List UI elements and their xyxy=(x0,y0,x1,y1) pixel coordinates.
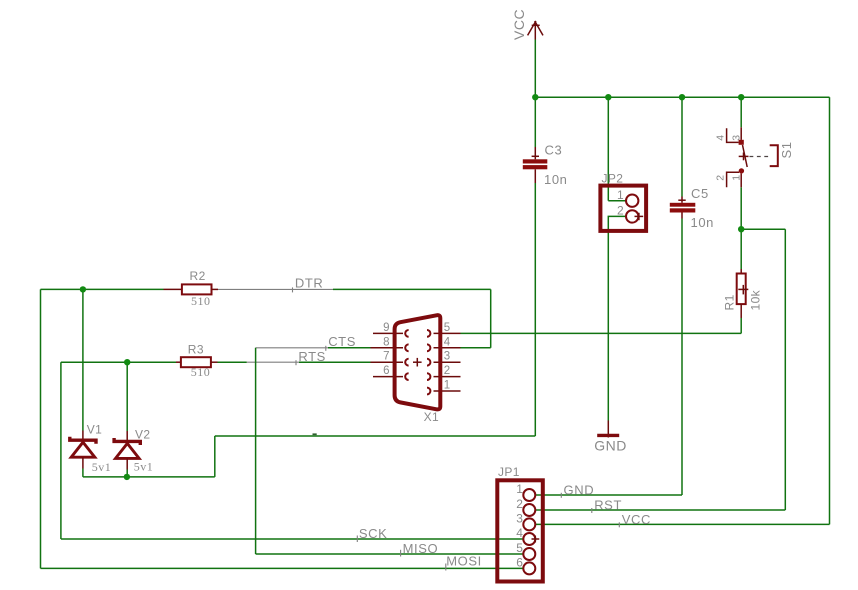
net label MOSI xyxy=(446,554,482,571)
resistor R3 xyxy=(176,342,218,378)
wire RTS to X1 pin7 xyxy=(299,361,371,363)
svg-text:2: 2 xyxy=(444,365,450,377)
svg-text:1: 1 xyxy=(516,482,523,496)
connector X1 DB9 xyxy=(371,315,461,424)
svg-text:RTS: RTS xyxy=(298,349,326,364)
wire X1 pin5 row xyxy=(461,332,742,334)
svg-text:10n: 10n xyxy=(544,172,568,187)
wire C3 top xyxy=(534,97,536,147)
wire node to V1 xyxy=(82,289,84,430)
wire C3 bottom to GND run xyxy=(534,183,536,436)
svg-text:MOSI: MOSI xyxy=(446,554,482,569)
wire RTS drop xyxy=(60,362,62,539)
junction VCC-C5 xyxy=(679,94,685,100)
svg-text:VCC: VCC xyxy=(511,9,527,40)
wire RTS gray segment xyxy=(247,361,299,363)
svg-text:RST: RST xyxy=(594,498,622,513)
wire S1 bottom to node xyxy=(740,187,742,229)
svg-text:5v1: 5v1 xyxy=(134,459,154,473)
net label MISO xyxy=(401,541,439,557)
pin header JP1 xyxy=(497,465,543,582)
svg-text:6: 6 xyxy=(383,365,389,377)
svg-text:3: 3 xyxy=(444,351,450,363)
svg-text:X1: X1 xyxy=(424,410,439,424)
wire V1 bottom xyxy=(82,469,84,477)
net label RTS xyxy=(296,349,326,365)
svg-text:5: 5 xyxy=(444,322,450,334)
svg-text:2: 2 xyxy=(714,175,726,181)
svg-text:7: 7 xyxy=(383,351,389,363)
wire far left drop xyxy=(40,289,42,568)
svg-text:6: 6 xyxy=(516,555,523,569)
net label DTR xyxy=(293,275,324,292)
wire CTS gray segment xyxy=(256,347,328,349)
svg-text:VCC: VCC xyxy=(622,512,651,527)
net label SCK xyxy=(357,526,387,542)
svg-text:10n: 10n xyxy=(691,215,715,230)
svg-text:V2: V2 xyxy=(135,428,150,442)
junction S1-R1-RST xyxy=(738,226,744,232)
svg-text:1: 1 xyxy=(730,175,742,181)
ground symbol GND xyxy=(594,421,627,454)
svg-text:JP2: JP2 xyxy=(602,172,624,186)
wire GND vertical left xyxy=(214,436,216,477)
wire DTR left xyxy=(41,288,164,290)
supply VCC symbol xyxy=(511,9,543,40)
wire JP2 pin1 elbow xyxy=(608,200,626,202)
svg-text:R2: R2 xyxy=(190,269,206,283)
zener diode V1 xyxy=(70,422,112,474)
capacitor C3 xyxy=(523,142,568,187)
wire SCK row to JP1 pin4 xyxy=(61,538,524,540)
resistor R1 xyxy=(723,269,763,318)
svg-text:V1: V1 xyxy=(87,422,102,436)
wire JP2 drop from VCC xyxy=(607,97,609,201)
svg-text:C3: C3 xyxy=(545,142,563,157)
svg-text:5: 5 xyxy=(516,541,523,555)
wire RST vertical xyxy=(784,229,786,510)
wire VCC row to JP1 pin3 xyxy=(535,523,830,525)
wire S1 top xyxy=(740,97,742,127)
svg-text:SCK: SCK xyxy=(359,526,388,541)
net label VCC xyxy=(619,512,651,527)
junction DTR-V1 xyxy=(80,286,86,292)
svg-text:5v1: 5v1 xyxy=(92,460,112,474)
wire node to RST drop xyxy=(741,228,785,230)
svg-text:1: 1 xyxy=(617,188,624,202)
svg-text:JP1: JP1 xyxy=(498,465,520,479)
svg-text:3: 3 xyxy=(516,512,523,526)
wire MOSI row to JP1 pin6 xyxy=(41,567,524,569)
wire R1 top xyxy=(740,229,742,269)
junction GND-V2 xyxy=(124,474,130,480)
net label GND xyxy=(561,483,594,498)
svg-text:510: 510 xyxy=(191,365,211,379)
svg-text:4: 4 xyxy=(444,336,451,348)
wire C5 bottom to JP1 xyxy=(681,219,683,496)
wire RST row to JP1 pin2 xyxy=(535,509,786,511)
resistor R2 xyxy=(164,269,219,308)
svg-text:510: 510 xyxy=(191,294,211,308)
wire node to V2 xyxy=(126,362,128,431)
wire DTR right xyxy=(333,288,491,290)
svg-text:C5: C5 xyxy=(691,186,709,201)
capacitor C5 xyxy=(670,186,714,230)
wire VCC stem xyxy=(534,40,536,98)
wire VCC bus top xyxy=(535,96,829,98)
svg-text:CTS: CTS xyxy=(328,334,356,349)
junction VCC-JP2 xyxy=(605,94,611,100)
svg-text:R1: R1 xyxy=(723,294,737,310)
wire V2 bottom xyxy=(126,470,128,477)
wire RTS left xyxy=(61,361,176,363)
svg-text:S1: S1 xyxy=(779,141,794,158)
svg-text:1: 1 xyxy=(444,380,450,392)
wire CTS drop xyxy=(255,348,257,554)
wire DTR gray segment xyxy=(218,288,333,290)
junction VCC-S1 xyxy=(738,94,744,100)
svg-text:2: 2 xyxy=(516,497,523,511)
wire GND horizontal run xyxy=(215,435,536,437)
wire R1 bottom xyxy=(740,318,742,333)
svg-text:9: 9 xyxy=(383,322,389,334)
wire diode bottom bus xyxy=(83,476,215,478)
wire JP2 pin2 elbow xyxy=(608,216,625,420)
switch S1 xyxy=(714,127,794,187)
svg-text:10k: 10k xyxy=(749,289,763,310)
jumper JP2 xyxy=(600,172,646,231)
wire CTS to X1 pin8 xyxy=(328,347,371,349)
wire GND row to JP1 pin1 xyxy=(535,494,682,496)
svg-text:3: 3 xyxy=(730,135,742,141)
junction VCC-C3 xyxy=(532,94,538,100)
wire stub mark on GND run xyxy=(313,433,317,435)
svg-text:2: 2 xyxy=(617,204,624,218)
svg-text:4: 4 xyxy=(714,135,726,141)
wire DTR down xyxy=(490,289,492,347)
svg-text:DTR: DTR xyxy=(295,275,324,290)
svg-text:R3: R3 xyxy=(188,342,204,356)
svg-text:4: 4 xyxy=(516,526,523,540)
wire C5 top xyxy=(681,97,683,196)
wire MISO row to JP1 pin5 xyxy=(256,553,524,555)
wire right VCC drop xyxy=(829,97,831,524)
svg-text:8: 8 xyxy=(383,336,389,348)
svg-text:GND: GND xyxy=(594,438,627,454)
junction RTS-V2 xyxy=(124,359,130,365)
net label CTS xyxy=(326,334,356,351)
zener diode V2 xyxy=(114,428,153,474)
svg-text:MISO: MISO xyxy=(403,541,439,556)
wire DTR to X1 pin4 xyxy=(461,347,491,349)
net label RST xyxy=(592,498,622,513)
svg-text:GND: GND xyxy=(564,483,595,498)
